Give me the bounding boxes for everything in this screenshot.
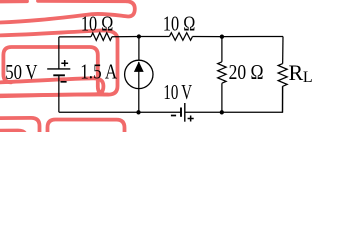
svg-text:20 Ω: 20 Ω (229, 60, 264, 84)
wire bottom from node D to bottom-right corner (222, 86, 283, 112)
svg-text:10 V: 10 V (163, 80, 192, 104)
label RL resistor reference (289, 60, 313, 86)
voltage source V2 10V battery short plate (180, 108, 182, 117)
svg-text:50 V: 50 V (5, 60, 37, 84)
node D junction dot (220, 110, 224, 114)
wire bottom from left corner to node C (59, 111, 139, 113)
wire top-right from node B to corner (222, 36, 283, 38)
voltage source V2 10V battery long plate (184, 103, 186, 122)
highlight stroke line under sources with descender (0, 78, 103, 95)
resistor RL vertical zigzag (278, 64, 287, 87)
resistor 20 ohm branch upper wire (221, 37, 223, 62)
svg-text:1.5 A: 1.5 A (80, 59, 118, 83)
svg-text:R: R (289, 60, 304, 85)
voltage source V1 50V battery short plate (53, 74, 65, 76)
wire between R1 and node A (112, 36, 139, 38)
label 10 ohm for R2 (163, 11, 195, 35)
node C junction dot (136, 110, 140, 114)
wire between R2 and node B (193, 36, 222, 38)
label 20 ohm (229, 60, 264, 84)
current source I1 arrow pointing up (134, 62, 144, 72)
resistor RL branch lower wire (282, 86, 284, 112)
wire top-left corner horizontal to resistor R1 (59, 36, 91, 38)
label 50 V for V1 (5, 60, 37, 84)
resistor 20 ohm branch lower wire (221, 83, 223, 112)
wire left branch lower segment (58, 75, 60, 112)
node A junction dot (137, 34, 141, 38)
minus sign of V2 (171, 115, 176, 117)
minus sign of V1 (61, 81, 67, 83)
label 10 ohm for R1 (81, 12, 113, 36)
label 1.5 A for I1 (80, 59, 118, 83)
highlight stroke line C into right descender and lower return (0, 30, 118, 96)
wire bottom from node C to battery V2 (139, 111, 182, 113)
resistor R1 zigzag 10 ohm top-left (91, 33, 112, 41)
resistor 20 ohm vertical zigzag (218, 62, 226, 83)
current source I1 branch lower wire (138, 89, 140, 113)
wire left branch upper segment (58, 37, 60, 69)
plus sign of V1 (61, 60, 68, 66)
wire bottom from battery V2 to node D (185, 111, 222, 113)
svg-text:L: L (303, 69, 313, 86)
svg-text:10 Ω: 10 Ω (81, 12, 113, 36)
resistor R2 zigzag 10 ohm top-middle (169, 33, 192, 41)
current source I1 circle (125, 60, 153, 88)
highlight stroke bottom-left lower line (0, 131, 26, 136)
highlight stroke bottom-left shape (0, 118, 40, 135)
highlight stroke bottom rounded box (48, 120, 125, 136)
node B junction dot (220, 35, 224, 39)
highlight stroke rounded box around 50V source (3, 47, 107, 95)
current source I1 internal tail wire (138, 62, 140, 89)
wire between node A and resistor R2 (139, 36, 170, 38)
voltage source V1 50V battery long plate (47, 68, 70, 70)
resistor RL branch upper wire (282, 37, 284, 64)
label 10 V for V2 (163, 80, 192, 104)
svg-text:10 Ω: 10 Ω (163, 11, 195, 35)
highlight stroke top line A left segment (0, 0, 27, 3)
highlight stroke top U-turn lines A and B (0, 1, 135, 23)
current source I1 branch upper wire (138, 37, 140, 61)
plus sign of V2 (188, 116, 194, 122)
